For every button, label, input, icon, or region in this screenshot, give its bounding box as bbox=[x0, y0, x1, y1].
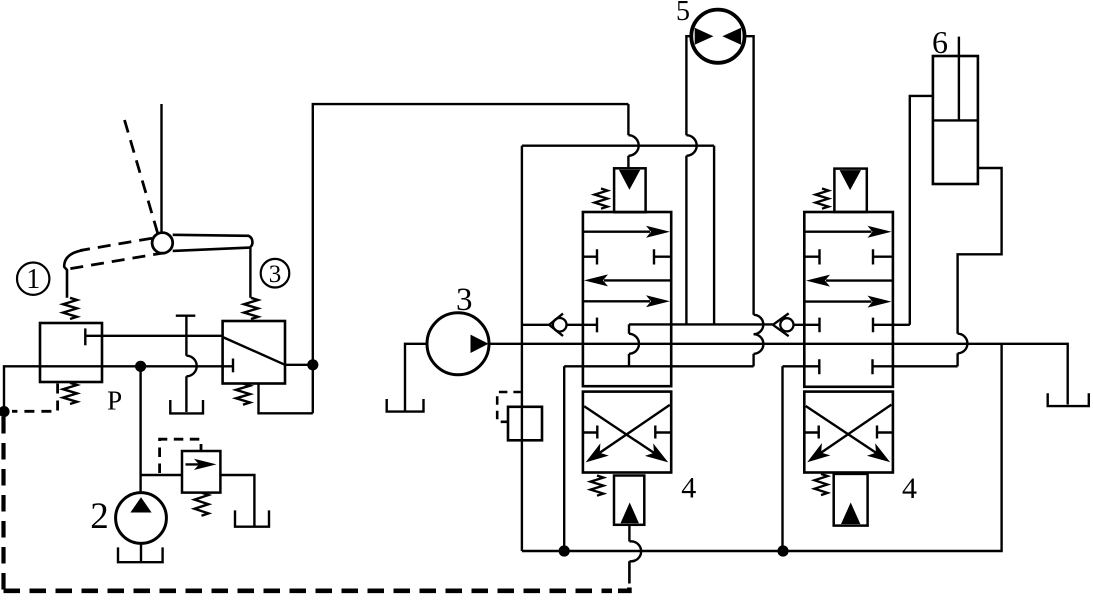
wire line A to check valve 1 bbox=[522, 324, 549, 326]
spring above valve 3 bbox=[244, 298, 258, 319]
wire main pressure line B bbox=[489, 344, 1068, 405]
valve 3 proportional diagonal bbox=[223, 337, 285, 365]
valve 3 output wire to node bbox=[285, 364, 313, 366]
r-row5 bars and stubs bbox=[820, 318, 910, 333]
row1 arrow right bbox=[583, 230, 650, 232]
tank T5 bbox=[1048, 393, 1089, 406]
svg-text:4: 4 bbox=[681, 472, 696, 505]
left valve 4 box2 X-section bbox=[583, 392, 671, 473]
r-row1 arrow right bbox=[804, 230, 871, 232]
node valve3 output bbox=[307, 359, 318, 370]
wire to cylinder rod side bbox=[910, 96, 933, 325]
wire bottom return line bbox=[522, 344, 1002, 551]
svg-text:3: 3 bbox=[456, 282, 473, 318]
rocker left end cap solid bbox=[64, 250, 83, 298]
wire P supply line bbox=[4, 366, 233, 411]
tank T3 bbox=[118, 547, 163, 562]
circled label 3 bbox=[261, 259, 290, 288]
rocker bar solid (right side) bbox=[173, 235, 253, 251]
wire CV1 to valve port bbox=[567, 324, 598, 326]
row4 arrow right bbox=[583, 300, 650, 302]
rod rocker to valve 3 bbox=[249, 248, 251, 298]
left valve bottom solenoid bbox=[614, 476, 644, 525]
row5 right wire with jog bbox=[629, 324, 773, 333]
pump 2 bbox=[116, 493, 167, 544]
tank T1 bbox=[170, 400, 203, 413]
wire hop drain over P line bbox=[186, 356, 196, 377]
left valve top solenoid bbox=[614, 168, 646, 212]
row2 port stubs and bars bbox=[583, 249, 671, 264]
r-row3 arrow left bbox=[826, 279, 893, 281]
motor right line with hops bbox=[745, 36, 754, 315]
right valve top spring bbox=[816, 189, 829, 209]
cylinder piston bbox=[933, 119, 978, 121]
cylinder rod bbox=[958, 37, 960, 121]
motor left line bbox=[686, 36, 691, 135]
drain stem to tank bbox=[185, 376, 187, 412]
r-row2 port stubs and bars bbox=[804, 249, 893, 264]
pump 3 bbox=[427, 313, 489, 375]
right valve bottom spring bbox=[815, 474, 828, 495]
lever dashed (tilted position) bbox=[125, 120, 159, 236]
relief drain wire bbox=[220, 475, 254, 526]
right valve 4 box2 X-section bbox=[804, 392, 893, 473]
valve 1 box bbox=[40, 323, 102, 382]
dashed pilot to valve1 spring bbox=[12, 384, 58, 412]
left valve top spring bbox=[595, 189, 608, 209]
right valve bottom solenoid bbox=[834, 474, 868, 526]
check valve CV2 bbox=[780, 318, 793, 331]
svg-text:3: 3 bbox=[269, 261, 282, 288]
wire hop jog over line B bbox=[629, 334, 639, 354]
valve 3 drain loop bbox=[259, 384, 313, 414]
svg-text:5: 5 bbox=[676, 0, 690, 27]
pilot below solenoid with hop bbox=[628, 525, 630, 542]
relief valve dashed pilot bbox=[160, 439, 201, 473]
left valve 4 box1 bbox=[583, 212, 671, 386]
svg-text:2: 2 bbox=[90, 496, 109, 537]
compensator dashed pilot bbox=[497, 392, 522, 422]
valve 1 internal port bar bbox=[84, 328, 86, 345]
wire riser to top line bbox=[313, 104, 629, 413]
line2 drop to line A bbox=[713, 146, 715, 325]
left valve bottom spring bbox=[591, 476, 604, 496]
dashed pilot main vertical (left edge) bbox=[1, 417, 5, 591]
spring below valve 1 bbox=[63, 383, 77, 404]
wire CV2 to right valve bbox=[794, 324, 820, 326]
compensator box bbox=[508, 407, 542, 441]
right X box port bars bbox=[804, 426, 893, 439]
row3 arrow left bbox=[604, 279, 671, 281]
node junction pump riser bbox=[135, 361, 146, 372]
cylinder 6 body bbox=[933, 56, 978, 184]
wire hop cyl over line B bbox=[958, 334, 968, 354]
right valve X diagonals bbox=[806, 405, 892, 453]
svg-text:1: 1 bbox=[26, 264, 40, 295]
right valve top solenoid bbox=[834, 169, 866, 212]
node bottom right bbox=[777, 545, 788, 556]
pivot pin bbox=[152, 233, 173, 254]
wire C center return bbox=[564, 365, 753, 367]
svg-text:P: P bbox=[107, 386, 122, 416]
X diagonals bbox=[584, 405, 670, 453]
relief valve spring bbox=[195, 493, 209, 516]
lever vertical arm bbox=[160, 104, 162, 236]
valve 3 box bbox=[223, 321, 285, 384]
wire pilot supply riser (left of valves) bbox=[521, 146, 523, 551]
wire CV2 input bbox=[773, 313, 789, 336]
circled label 1 bbox=[17, 263, 49, 295]
relief valve arrow bbox=[186, 463, 208, 465]
svg-text:4: 4 bbox=[902, 472, 917, 505]
wire C drop to bottom node bbox=[563, 366, 565, 551]
valve 3 internal port bar bbox=[232, 359, 234, 373]
motor 5 bbox=[691, 10, 744, 63]
pump 2 suction bbox=[140, 543, 142, 561]
pilot vertical to pump 2 bbox=[139, 366, 141, 493]
pilot drop from top line to solenoid bbox=[627, 104, 629, 135]
spring below valve 3 bbox=[236, 384, 250, 405]
wire line2 top bbox=[522, 144, 714, 146]
X box port bars bbox=[583, 426, 671, 439]
dashed pilot bottom line bbox=[4, 588, 613, 593]
tank T2 bbox=[235, 510, 269, 526]
r-row6 bars and stubs bbox=[783, 359, 958, 374]
svg-text:6: 6 bbox=[932, 24, 948, 60]
r-row4 arrow right bbox=[804, 300, 871, 302]
pump 3 suction bbox=[405, 344, 427, 411]
node bottom left bbox=[559, 545, 570, 556]
wire cylinder head side bbox=[958, 168, 1002, 334]
tank T4 bbox=[387, 399, 424, 412]
rocker bar dashed ghost (left side) bbox=[70, 238, 167, 269]
right valve 4 box1 bbox=[804, 212, 893, 387]
right valve riser to bottom node bbox=[781, 366, 783, 551]
tee to relief valve bbox=[141, 474, 182, 476]
wire valve1 to valve3 (pilot output line) bbox=[85, 335, 222, 337]
relief valve box bbox=[182, 451, 220, 493]
spring above valve 1 bbox=[63, 298, 77, 319]
blocked port T symbol bbox=[176, 316, 196, 356]
port bar left valve row5 bbox=[596, 318, 598, 333]
node P junction left bbox=[0, 406, 10, 417]
check valve CV1 bbox=[549, 314, 563, 336]
